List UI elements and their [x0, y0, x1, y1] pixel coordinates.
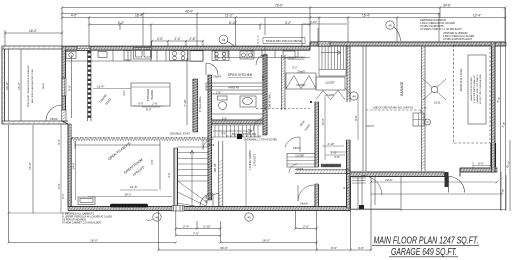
wall stair-left: [174, 148, 178, 207]
svg-text:5'-4": 5'-4": [57, 139, 61, 144]
node section-circle-B1: [153, 213, 161, 221]
svg-text:2'8x6'8: 2'8x6'8: [300, 203, 308, 206]
node garage-man-door: [445, 172, 449, 187]
node section-circle-B2: [245, 213, 253, 221]
svg-text:30'-6": 30'-6": [443, 4, 451, 8]
wall deck-left: [2, 46, 5, 124]
svg-text:MAIN FLOOR PLAN 1247 SQ.FT.: MAIN FLOOR PLAN 1247 SQ.FT.: [374, 235, 479, 247]
node laundry-R-circle: [425, 119, 431, 125]
svg-text:SHEARWALL 1 TYP AS NOTED: SHEARWALL 1 TYP AS NOTED: [244, 139, 277, 142]
svg-text:16'-0": 16'-0": [262, 238, 270, 242]
node lanai-notes-box: [468, 55, 486, 124]
svg-text:17'0X10'2: 17'0X10'2: [253, 153, 257, 166]
wire slash-ticks-top: [61, 6, 507, 42]
svg-text:R: R: [427, 120, 429, 124]
wire dim-row-4: [89, 24, 310, 26]
wall garage-lanai-party: [422, 46, 426, 171]
wire bottom-row2: [176, 235, 221, 237]
node stair-top-door: [203, 139, 214, 150]
wall house-left: [62, 46, 66, 121]
node circle-40: [386, 21, 394, 29]
wire greatroom-dims: [75, 141, 160, 190]
svg-text:7'-10": 7'-10": [183, 99, 187, 107]
svg-text:2'-4": 2'-4": [174, 37, 180, 41]
svg-text:2x6 INT WALL: 2x6 INT WALL: [269, 92, 272, 108]
svg-text:6'-6": 6'-6": [478, 161, 484, 165]
wall powder-bottom: [212, 120, 264, 124]
node spice-door: [206, 63, 218, 75]
ground hatch-marks: [2, 42, 505, 210]
svg-text:7'-6": 7'-6": [193, 231, 199, 235]
wall tall-wall: [193, 79, 198, 132]
svg-text:5'-0": 5'-0": [222, 117, 227, 121]
node double-joist-zigzag: [71, 137, 208, 141]
node stair-bottom-door: [206, 194, 219, 207]
wall mud-west: [282, 55, 286, 110]
svg-text:AND 36IN GUARD AS PER CODE: AND 36IN GUARD AS PER CODE: [31, 69, 34, 103]
svg-text:9'-6": 9'-6": [354, 115, 358, 120]
svg-text:12'-4": 12'-4": [473, 14, 481, 18]
svg-text:24'-8": 24'-8": [5, 82, 9, 90]
svg-text:16'-0": 16'-0": [29, 29, 37, 33]
wire foyer-dims: [322, 146, 347, 152]
svg-text:GARAGE 649 SQ.FT.: GARAGE 649 SQ.FT.: [391, 246, 457, 258]
svg-text:2'-10": 2'-10": [310, 20, 317, 24]
svg-text:14'-0": 14'-0": [28, 162, 32, 170]
svg-text:43: 43: [222, 38, 226, 42]
node foyer-door-bottom: [298, 185, 314, 201]
wire beam-dash: [256, 108, 310, 110]
wall deck-bottom: [2, 121, 68, 124]
wall greatroom-left: [68, 124, 71, 207]
node notes-topright: [420, 19, 474, 41]
node cooktop: [170, 51, 188, 61]
node counter-items-left: [98, 52, 107, 58]
node linear-fireplace: [110, 204, 148, 208]
wire deck-dim-inner: [9, 49, 21, 121]
svg-text:DECK: DECK: [43, 82, 45, 89]
node dining-label: [98, 92, 112, 105]
svg-text:2'4x6'8: 2'4x6'8: [326, 94, 334, 97]
svg-text:CLOSET: CLOSET: [296, 84, 306, 87]
svg-text:2'6x6'8: 2'6x6'8: [297, 71, 305, 74]
svg-text:24'-6": 24'-6": [385, 178, 393, 182]
svg-text:AT MIN SUPPORTS EACH: AT MIN SUPPORTS EACH: [443, 38, 472, 41]
node deck-door-arc: [46, 105, 62, 121]
wire garage-width-dim: [371, 181, 497, 183]
node stairs-main: [178, 147, 209, 181]
svg-text:8'-0": 8'-0": [146, 108, 152, 112]
wall mud-right: [347, 46, 350, 102]
svg-text:2'4x6'8: 2'4x6'8: [296, 169, 304, 171]
node foyer-closet: [287, 154, 315, 168]
svg-text:2'-4": 2'-4": [183, 224, 189, 228]
svg-text:6'-0": 6'-0": [118, 21, 124, 25]
svg-text:15'-4": 15'-4": [362, 14, 370, 18]
svg-text:SPICE KITCHEN: SPICE KITCHEN: [228, 73, 253, 77]
node deck-label: [27, 65, 45, 107]
svg-text:6'-6": 6'-6": [331, 246, 337, 250]
wall stair-west: [208, 75, 212, 200]
svg-text:BONUS ABV 2ND FLR ABOVE: BONUS ABV 2ND FLR ABOVE: [266, 39, 302, 43]
node kitchen-sink: [134, 48, 152, 60]
svg-text:LINEAR F/P 60: LINEAR F/P 60: [121, 205, 137, 208]
node mud-door-arc: [256, 54, 267, 65]
node spice-sink: [240, 51, 254, 59]
svg-text:2'-6": 2'-6": [303, 224, 309, 228]
svg-text:2'-8": 2'-8": [216, 92, 221, 95]
svg-text:MUD ROOM: MUD ROOM: [288, 56, 305, 60]
svg-text:14'-0": 14'-0": [72, 162, 76, 169]
node deck-door-opening: [62, 110, 67, 121]
node bonus-abv-label: [263, 38, 305, 44]
wire dim-row-73: [62, 7, 505, 9]
node entry-door-arc: [200, 194, 213, 207]
svg-text:2'-10": 2'-10": [327, 142, 334, 146]
wall garage-right: [492, 42, 496, 172]
node stair-dims: [150, 159, 217, 177]
node powder-sink: [240, 96, 256, 107]
svg-text:2'8x6'8: 2'8x6'8: [213, 75, 222, 79]
wire lanai-dash-rect: [454, 45, 491, 143]
svg-text:2'8x6'8: 2'8x6'8: [293, 147, 301, 150]
svg-text:14'-0": 14'-0": [17, 82, 21, 90]
node notes-bottomleft: [62, 213, 112, 225]
svg-text:2'8x6'8: 2'8x6'8: [50, 118, 58, 121]
wall house-top-B: [310, 42, 506, 46]
svg-text:36'-6": 36'-6": [220, 246, 228, 250]
svg-text:73'-0": 73'-0": [275, 4, 283, 8]
svg-text:3'-10": 3'-10": [203, 224, 211, 228]
svg-text:16'-2": 16'-2": [124, 193, 131, 197]
wire media-dim: [88, 196, 172, 198]
svg-text:9'-8": 9'-8": [261, 75, 265, 80]
svg-text:8'-10": 8'-10": [229, 21, 237, 25]
svg-text:40: 40: [388, 23, 392, 27]
wall house-bottom: [68, 207, 350, 211]
svg-text:W16 LINE OF FLR ABV: W16 LINE OF FLR ABV: [232, 133, 257, 136]
wire garage-dim-6-6: [473, 162, 492, 168]
svg-text:3'0x7'0: 3'0x7'0: [366, 125, 374, 128]
wall garage-left: [363, 46, 366, 171]
svg-text:2 HR FIRE RATED WALL AT: 2 HR FIRE RATED WALL AT: [473, 74, 476, 103]
svg-text:GARAGE: GARAGE: [400, 81, 404, 96]
wire deck-dim-top 16ft: [5, 30, 62, 46]
wire bottom-deck-dim: [9, 212, 68, 214]
wall dining-kitchen: [88, 50, 92, 121]
wire entry-dim: [357, 95, 359, 140]
wire kitchen-dim-right: [186, 58, 188, 125]
node foyer-door-top: [285, 137, 300, 152]
svg-text:CLOSET: CLOSET: [325, 82, 335, 85]
wall stair-east: [219, 141, 223, 207]
node mud-closet-A: [286, 73, 316, 89]
node garage-fan: [423, 79, 446, 100]
svg-text:6'-1": 6'-1": [61, 193, 65, 198]
wire small-dim lines: [152, 41, 203, 46]
svg-text:2'8x6'8: 2'8x6'8: [207, 145, 215, 147]
svg-text:7'-4": 7'-4": [221, 133, 226, 136]
svg-text:42'-0": 42'-0": [185, 10, 193, 14]
node powder-door: [253, 117, 267, 131]
node kitchen-island: [131, 83, 170, 106]
svg-text:5'-2": 5'-2": [292, 66, 297, 70]
node media-cabinet: [78, 197, 95, 205]
node greatroom-labels: [107, 141, 145, 177]
svg-text:4'-6": 4'-6": [150, 159, 154, 164]
svg-text:2'-8": 2'-8": [189, 37, 195, 41]
svg-text:9'-0": 9'-0": [68, 85, 72, 91]
svg-text:2'-10": 2'-10": [331, 151, 338, 155]
node french-door: [172, 206, 184, 212]
node porch-steps: [352, 178, 366, 183]
svg-text:4'-0": 4'-0": [358, 246, 364, 250]
node circle-43: [219, 35, 228, 44]
wire mud-dims: [302, 24, 347, 46]
svg-text:2'-6": 2'-6": [122, 90, 126, 96]
node laundry: [413, 113, 424, 126]
svg-text:13x13: 13x13: [434, 103, 441, 105]
node powder-room: [212, 94, 264, 114]
svg-text:11'-4": 11'-4": [97, 85, 104, 89]
wire bottom-row4: [159, 249, 372, 251]
wire deck-east-dim: [60, 124, 62, 213]
svg-text:W/ 5/8 TYPE X GWB EA SIDE: W/ 5/8 TYPE X GWB EA SIDE: [479, 74, 482, 104]
svg-text:CLOSET: CLOSET: [295, 156, 305, 158]
node stairs2-up: [319, 45, 346, 76]
node sink2: [66, 52, 76, 59]
node shear-flag: [237, 134, 242, 139]
node bench: [321, 164, 341, 167]
node stairs-basement: [212, 125, 262, 137]
svg-text:6'-0": 6'-0": [138, 102, 143, 106]
wire dim-row-3: [62, 17, 505, 19]
svg-text:18'-4": 18'-4": [135, 14, 143, 18]
svg-text:40: 40: [247, 215, 251, 219]
svg-text:AT NEW CABINET C/S IN BUILDER: AT NEW CABINET C/S IN BUILDER: [62, 222, 101, 225]
svg-text:14'-6": 14'-6": [130, 185, 138, 189]
svg-text:GARAGE SIDE 1 HR WALLS: GARAGE SIDE 1 HR WALLS: [476, 74, 479, 103]
node den-label: [299, 120, 312, 132]
node toilet: [218, 96, 228, 100]
wire dining-dim: [71, 55, 73, 118]
node window-wallB: [318, 42, 330, 47]
svg-text:CABT BENCH: CABT BENCH: [324, 165, 338, 168]
wire bottom-dim-verticals: [9, 125, 501, 250]
node spice-fridge: [283, 51, 295, 58]
wall house-top-A: [62, 46, 310, 50]
wall deck-top: [2, 46, 62, 49]
wire mud-dim-vert: [264, 46, 266, 110]
node foyer-closet-door: [289, 164, 298, 173]
svg-text:PRESSURE TREATED DECK W/ RAILI: PRESSURE TREATED DECK W/ RAILING: [27, 65, 30, 107]
wall powder-right: [263, 55, 267, 135]
svg-text:14'-4": 14'-4": [321, 118, 325, 125]
node window-kitchen-band: [77, 46, 90, 51]
node pantry: [206, 83, 263, 90]
wire dim-row-42: [62, 13, 440, 15]
wire driveway-edge: [371, 193, 501, 195]
wire right-dim-lines: [501, 8, 511, 211]
svg-text:40: 40: [155, 215, 159, 219]
svg-text:AT SIDES 2 AND AT 1 1 W/ DIM E: AT SIDES 2 AND AT 1 1 W/ DIM EACH: [420, 28, 462, 31]
svg-text:3'-0": 3'-0": [167, 172, 171, 177]
svg-text:16'-0": 16'-0": [90, 238, 98, 242]
wire bottom-row1: [176, 228, 317, 230]
node porch: [350, 176, 400, 210]
wire livingroom-vert-dim: [245, 141, 247, 206]
wall entry-right: [347, 140, 351, 208]
wire line-2ndflr-dashed: [366, 110, 421, 114]
wire baseline-right: [350, 175, 506, 211]
svg-text:LIVING ROOM: LIVING ROOM: [248, 150, 252, 170]
svg-text:11'-2": 11'-2": [225, 14, 233, 18]
node dishwasher: [124, 51, 131, 61]
svg-text:5'-8": 5'-8": [334, 155, 340, 159]
svg-text:5'-6": 5'-6": [343, 186, 348, 190]
wire mudhall-dim: [324, 95, 326, 160]
wall bench-wall: [295, 170, 350, 174]
svg-text:DOUBLE JOIST: DOUBLE JOIST: [170, 132, 190, 136]
node circle-44: [350, 92, 358, 100]
wire island-dims: [142, 106, 160, 108]
svg-text:ISLAND: ISLAND: [150, 90, 154, 100]
svg-text:FR DR: FR DR: [205, 195, 208, 203]
svg-text:LINE OF 2ND FLR ABV W.D. SUPP: LINE OF 2ND FLR ABV W.D. SUPP LN: [373, 107, 414, 110]
node kitchen-counter: [66, 50, 204, 61]
wall garage-bottom: [350, 172, 445, 177]
wire dim-droppers: [62, 8, 505, 51]
svg-text:9' TALL WALL: 9' TALL WALL: [198, 95, 202, 112]
node mud-closet-B: [316, 77, 345, 90]
wire greatroom-west-dim: [75, 141, 77, 200]
node window-left: [62, 78, 67, 96]
svg-text:8'-4": 8'-4": [57, 183, 61, 188]
node fridge: [190, 51, 203, 62]
svg-text:MAIN FLR LANAI: MAIN FLR LANAI: [459, 68, 463, 91]
node spice-counter: [205, 60, 310, 62]
wire bottom-row3: [9, 242, 317, 244]
wall foyer-east: [315, 102, 319, 167]
svg-text:3'-2": 3'-2": [285, 21, 291, 25]
node dim-texts-top: [71, 4, 481, 42]
svg-text:2'-6": 2'-6": [152, 102, 157, 106]
svg-text:LANAI 12X8 ROOF ABV: LANAI 12X8 ROOF ABV: [470, 77, 473, 101]
svg-text:4'-0": 4'-0": [71, 14, 77, 18]
svg-text:44: 44: [352, 94, 356, 98]
svg-text:PANTRY: PANTRY: [228, 85, 239, 89]
node spice-cooktop: [212, 51, 229, 61]
svg-text:10R UP: 10R UP: [213, 163, 217, 172]
wire line-of-flr-above: [226, 135, 263, 137]
svg-text:2'-0": 2'-0": [157, 37, 163, 41]
